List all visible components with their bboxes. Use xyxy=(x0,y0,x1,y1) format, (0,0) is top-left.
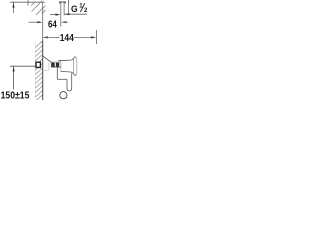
node extension tick xyxy=(27,0,29,6)
node G half stub left line xyxy=(60,3,62,27)
wire hatch stroke 4 xyxy=(42,10,46,14)
node G half leader arrow xyxy=(65,0,88,15)
node dim 144 right arrow xyxy=(74,36,96,38)
node dim 144 left arrow xyxy=(43,36,60,38)
wire hatch stroke 1 xyxy=(31,2,35,6)
wire escutcheon diagonal xyxy=(43,56,51,62)
svg-text:64: 64 xyxy=(48,19,57,31)
text G 1/2 xyxy=(1,3,88,101)
node G half stub right line xyxy=(63,3,65,16)
handle knob xyxy=(58,57,77,75)
wire escutcheon bottom edge xyxy=(43,70,49,72)
wall hatching xyxy=(35,41,42,100)
hose union circle xyxy=(60,92,67,99)
valve body xyxy=(51,62,61,67)
node dim 64 right arrow xyxy=(61,21,67,23)
wall section side view xyxy=(35,41,42,100)
svg-text:150±15: 150±15 xyxy=(1,91,30,101)
wire right extension line xyxy=(95,30,97,44)
node top-left arrow xyxy=(12,2,14,13)
node height dim arrow xyxy=(10,66,36,89)
wire wall right edge (wall face) xyxy=(42,41,44,100)
wire hatch stroke 2 xyxy=(32,1,43,12)
spout elbow xyxy=(57,67,71,91)
svg-text:G: G xyxy=(71,4,78,15)
svg-text:144: 144 xyxy=(60,33,74,44)
fixture side view xyxy=(10,56,77,99)
node dim 64 left arrow xyxy=(29,21,43,23)
wire wall left edge xyxy=(34,41,36,100)
wire hatch stroke 3 xyxy=(36,6,45,15)
node G half stub cap xyxy=(60,2,66,3)
wire escutcheon right edge xyxy=(48,63,50,71)
wire wall-face extension line xyxy=(42,2,44,41)
node stub dim arrow xyxy=(50,14,60,16)
concealed supply rectangle xyxy=(36,62,40,67)
wire top reference line xyxy=(10,1,45,3)
